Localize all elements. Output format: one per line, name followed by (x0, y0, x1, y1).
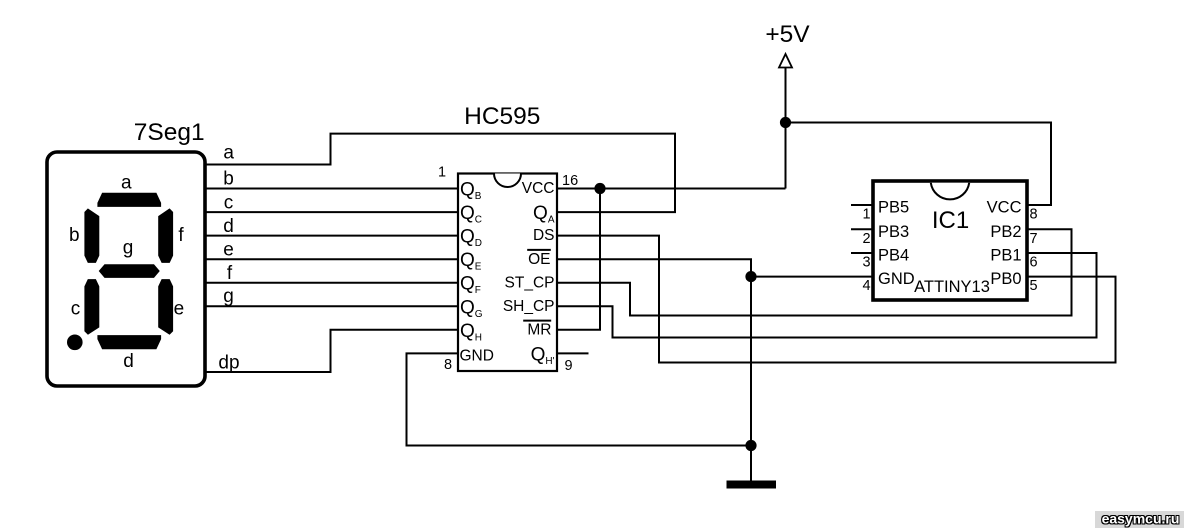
svg-text:1: 1 (862, 207, 870, 223)
+5V supply triangle (779, 54, 792, 68)
wire QH' stub pin 9 (557, 352, 589, 354)
wire IC1 pin3 stub (851, 252, 873, 254)
svg-text:PB2: PB2 (990, 223, 1021, 241)
wire IC1 GND to ground net (751, 276, 873, 278)
node +5V junction (780, 117, 791, 128)
wire VCC net (HC595 pin16 to +5V) (557, 188, 786, 190)
svg-text:8: 8 (1030, 207, 1038, 223)
svg-text:a: a (121, 173, 132, 194)
segment f (upper-right) (159, 209, 173, 262)
svg-text:7: 7 (1030, 231, 1038, 247)
node OE-GND junction (745, 271, 756, 282)
wire a (7seg a to HC595 QA) (205, 134, 675, 213)
svg-text:ATTINY13: ATTINY13 (914, 278, 990, 296)
svg-text:PB3: PB3 (878, 223, 909, 241)
wire IC1 pin1 stub (851, 204, 873, 206)
svg-text:9: 9 (564, 358, 572, 374)
svg-text:c: c (224, 193, 234, 214)
svg-text:g: g (123, 238, 134, 259)
svg-text:f: f (178, 225, 184, 246)
svg-text:a: a (223, 143, 234, 164)
svg-text:PB0: PB0 (990, 270, 1021, 288)
wire +5V to IC1 VCC (786, 123, 1052, 206)
svg-text:d: d (123, 351, 134, 372)
ground symbol (727, 481, 777, 489)
svg-text:5: 5 (1030, 278, 1038, 294)
wire e (205, 258, 458, 260)
segment d (bottom) (98, 336, 161, 349)
microcontroller IC1 ATTINY13 body (873, 181, 1027, 300)
wire IC1 pin2 stub (851, 228, 873, 230)
svg-text:SH_CP: SH_CP (503, 298, 555, 315)
svg-text:8: 8 (444, 357, 452, 373)
svg-text:4: 4 (862, 278, 870, 294)
svg-text:PB4: PB4 (878, 247, 909, 265)
node ground junction (745, 440, 756, 451)
svg-text:2: 2 (862, 231, 870, 247)
svg-text:IC1: IC1 (932, 207, 969, 234)
svg-text:3: 3 (862, 255, 870, 271)
wire d (205, 235, 458, 237)
segment g (middle) (100, 265, 160, 278)
segment b (upper-left) (85, 209, 99, 262)
OE overline (527, 249, 551, 251)
svg-text:MR: MR (527, 321, 551, 338)
HC595 notch (494, 174, 521, 188)
svg-text:e: e (223, 240, 234, 261)
svg-text:6: 6 (1030, 255, 1038, 271)
svg-text:b: b (223, 169, 234, 190)
segment e (lower-right) (159, 280, 173, 334)
wire ST_CP net (ST_CP to IC1 PB2) (557, 229, 1072, 315)
wire b (205, 188, 458, 190)
svg-text:GND: GND (878, 270, 915, 288)
segment a (98, 193, 161, 206)
node VCC-MR junction (594, 183, 605, 194)
svg-text:GND: GND (460, 347, 494, 364)
wire HC595 GND to ground net (407, 353, 752, 445)
wire SH_CP net (SH_CP to IC1 PB1) (557, 253, 1097, 338)
wire f (205, 282, 458, 284)
svg-text:7Seg1: 7Seg1 (134, 119, 205, 146)
segment c (lower-left) (85, 280, 99, 334)
wire g (205, 305, 458, 307)
svg-text:16: 16 (562, 173, 578, 189)
svg-text:HC595: HC595 (464, 103, 540, 130)
svg-text:DS: DS (533, 227, 555, 244)
svg-text:g: g (223, 286, 234, 307)
svg-text:d: d (223, 216, 234, 237)
7-segment display 7Seg1 body (47, 152, 205, 386)
svg-text:easymcu.ru: easymcu.ru (1102, 511, 1180, 527)
MR overline (523, 320, 551, 322)
svg-text:+5V: +5V (765, 21, 810, 48)
svg-text:PB1: PB1 (990, 247, 1021, 265)
svg-text:1: 1 (438, 165, 446, 181)
svg-text:ST_CP: ST_CP (505, 274, 555, 291)
wire OE to ground net (557, 259, 751, 480)
wire dp (7seg dp to HC595 QH) (205, 330, 458, 372)
wire +5V vertical (785, 68, 787, 189)
wire MR to VCC (557, 189, 600, 330)
svg-text:VCC: VCC (987, 199, 1022, 217)
shift register HC595 body (458, 174, 557, 372)
svg-text:PB5: PB5 (878, 199, 909, 217)
svg-text:f: f (227, 263, 233, 284)
svg-text:b: b (69, 225, 80, 246)
svg-text:e: e (174, 299, 185, 320)
decimal point dp (68, 335, 82, 349)
wire DS net (DS to IC1 PB0) (557, 236, 1116, 363)
svg-text:OE: OE (528, 251, 550, 268)
IC1 notch (931, 183, 969, 200)
watermark background (1095, 511, 1184, 528)
svg-text:dp: dp (218, 353, 239, 374)
svg-text:VCC: VCC (522, 180, 555, 197)
wire c (205, 211, 458, 213)
svg-text:c: c (71, 299, 81, 320)
